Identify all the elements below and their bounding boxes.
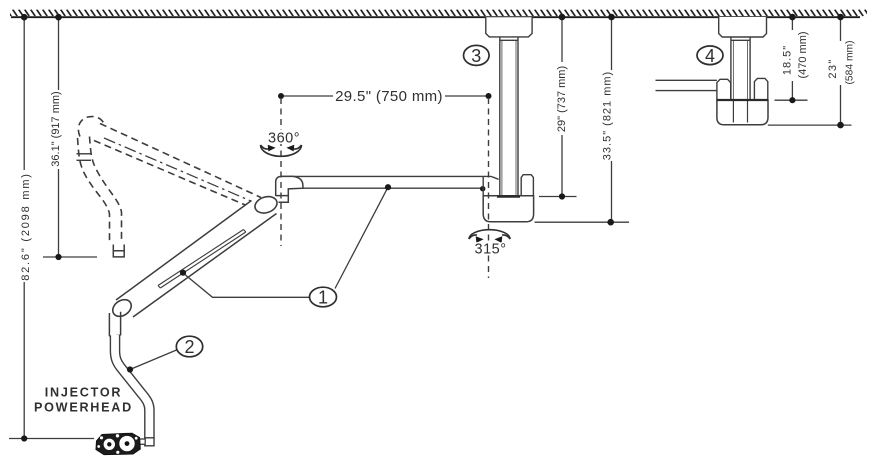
dashed elbow <box>78 117 105 137</box>
lower ball joint <box>110 296 135 320</box>
callout 1 leader to diagonal arm <box>183 273 310 297</box>
diagonal arm lower edge <box>133 214 277 318</box>
dashed arm upper edge <box>100 124 261 198</box>
column 3 tube <box>500 37 518 196</box>
horizontal arm top edge <box>281 175 491 177</box>
injector powerhead body <box>96 433 140 454</box>
svg-text:4: 4 <box>705 46 715 66</box>
column 3 right collar <box>521 175 533 196</box>
junction dot at column <box>480 186 485 191</box>
svg-text:(584 mm): (584 mm) <box>845 40 856 84</box>
dim line 23in <box>840 18 842 125</box>
powerhead stub <box>140 439 146 444</box>
column 4 lower block <box>717 100 768 125</box>
column 4 tube inside block <box>733 100 747 123</box>
dim line 29.5in <box>281 95 489 97</box>
svg-text:2: 2 <box>184 337 194 357</box>
dashed tube left edge <box>78 138 110 243</box>
upper ball joint <box>253 194 279 216</box>
centerline 360 axis <box>280 98 282 246</box>
column 3 ceiling plate <box>486 17 532 37</box>
svg-text:36.1" (917 mm): 36.1" (917 mm) <box>50 91 62 166</box>
dashed arm lower edge <box>94 141 250 207</box>
svg-text:INJECTOR: INJECTOR <box>45 386 122 400</box>
dim line 18.5in <box>791 18 793 100</box>
column 4 tube <box>731 37 750 100</box>
ceiling hatch <box>10 10 867 17</box>
powerhead large wheel <box>119 436 134 451</box>
ext line at powerhead <box>9 438 94 440</box>
powerhead small wheel <box>104 439 115 450</box>
callout 4 circle <box>697 46 723 65</box>
lower S tube <box>115 336 149 439</box>
dashed tube right edge <box>90 137 122 244</box>
dashed tube end cap <box>113 245 125 257</box>
svg-text:315°: 315° <box>475 242 507 258</box>
diagonal arm upper edge <box>116 201 252 301</box>
dim line 82.6in <box>23 18 25 439</box>
dashed alternate arm position <box>78 117 262 243</box>
ext line 18.5in <box>775 99 808 101</box>
callout 2 leader <box>130 350 177 370</box>
elbow block at arm left end <box>276 176 303 202</box>
dim line 36.1in <box>58 18 60 257</box>
column 4 right collar <box>754 78 767 99</box>
horizontal arm bottom edge <box>303 187 483 189</box>
ext line 23in <box>768 124 852 126</box>
callout 1 circle <box>310 287 337 307</box>
ext line 29in <box>539 196 577 198</box>
svg-text:33.5" (821 mm): 33.5" (821 mm) <box>602 71 614 160</box>
dash-dot centerline of dashed arm <box>104 138 251 201</box>
column 3 left collar edge <box>482 176 484 196</box>
ext line 36.1 <box>43 256 97 258</box>
joint tick marks on dashed tube <box>77 154 92 161</box>
arm slot lines <box>158 230 246 289</box>
svg-text:29" (737 mm): 29" (737 mm) <box>556 66 568 132</box>
callout 3 circle <box>464 45 490 65</box>
horizontal arm chamfer into column <box>491 176 499 179</box>
ext line 33.5in <box>535 221 630 223</box>
360 rotation symbol <box>261 145 302 156</box>
column 4 left collar <box>717 79 731 99</box>
ceiling line <box>11 16 860 18</box>
horizontal arm fill <box>280 177 488 188</box>
svg-text:POWERHEAD: POWERHEAD <box>34 401 133 415</box>
315 rotation symbol <box>469 230 510 239</box>
svg-text:1: 1 <box>318 288 328 308</box>
diagonal arm fill <box>116 201 277 318</box>
lower cylinder below ball <box>109 312 120 337</box>
dim line 29in <box>561 18 563 197</box>
svg-text:360°: 360° <box>268 131 300 147</box>
svg-text:29.5" (750 mm): 29.5" (750 mm) <box>335 88 443 105</box>
white gaps for dimension texts <box>16 30 861 282</box>
svg-text:3: 3 <box>471 46 481 66</box>
callout 1 leader to horizontal arm <box>335 187 388 288</box>
column 3 block top heavy line <box>497 195 520 197</box>
callout 2 circle <box>176 336 202 357</box>
column 4 arm stub <box>656 80 717 90</box>
svg-text:23": 23" <box>827 58 839 78</box>
svg-text:82.6" (2098 mm): 82.6" (2098 mm) <box>20 172 32 281</box>
column 4 ceiling plate <box>719 17 767 37</box>
svg-text:(470 mm): (470 mm) <box>797 31 809 78</box>
centerline 315 axis <box>488 98 490 278</box>
column 3 lower block <box>483 196 533 222</box>
tube end fitting <box>145 438 154 446</box>
column 4 block top heavy line <box>717 99 768 101</box>
dim line 33.5in <box>611 18 613 222</box>
svg-text:18.5": 18.5" <box>782 45 794 75</box>
